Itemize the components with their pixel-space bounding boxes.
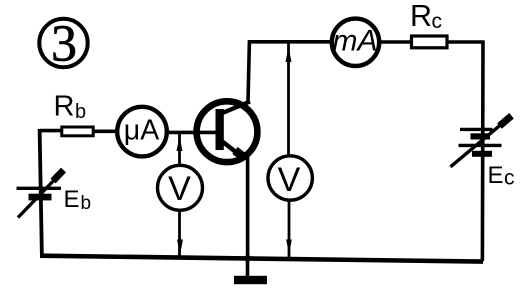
wire top right [448,40,485,44]
wire collector riser [248,42,249,102]
wire base mid [95,130,116,134]
svg-text:c: c [432,10,443,33]
wire top mid [379,40,412,44]
figure number 3 [39,16,87,73]
svg-text:E: E [64,186,80,213]
wire top left [248,40,332,44]
wire base left [40,129,61,133]
wire base right [169,131,219,135]
resistor Rb [62,127,93,136]
wire V1 bottom with arrow [177,211,183,258]
svg-text:c: c [504,167,515,190]
svg-text:E: E [488,162,504,189]
transistor Q1 [197,101,258,162]
ammeter µA [117,107,167,157]
voltmeter V2 [268,156,312,200]
wire left [40,129,42,257]
svg-text:V: V [278,161,301,199]
label Rc [410,0,442,33]
voltmeter V1 [158,165,203,210]
wire right [481,41,485,262]
svg-text:R: R [410,0,432,33]
junction emitter-bottom wire [244,255,251,262]
label Ec [488,162,515,189]
svg-text:V: V [168,170,191,208]
svg-text:b: b [81,193,92,214]
wire V1 top with arrow [177,132,183,166]
svg-text:μA: μA [124,114,159,146]
wire V2 bottom with arrow [286,201,292,259]
milliammeter mA [332,19,379,66]
wire bottom [40,256,483,262]
svg-text:mA: mA [333,25,378,58]
battery Ec [451,116,512,167]
resistor Rc [412,36,448,48]
label Rb [54,91,87,123]
ground [234,257,267,284]
wire emitter riser [246,157,250,260]
svg-text:R: R [54,91,75,123]
battery Eb [17,170,64,218]
label Eb [64,186,92,214]
svg-text:b: b [75,101,86,123]
svg-text:3: 3 [51,16,77,73]
wire V2 top with arrow [286,43,292,156]
